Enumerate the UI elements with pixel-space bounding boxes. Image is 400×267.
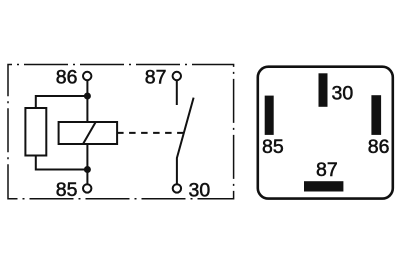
svg-text:87: 87 [316,159,338,181]
pin 85 terminal circle [83,184,91,192]
wire: pin 86 lead down to coil top [86,80,88,122]
switch blade (normally open contact) [177,98,194,185]
terminal pad 86 [371,95,381,135]
terminal pad 30 [319,73,328,107]
wire: bottom branch from resistor [36,156,88,170]
coil diagonal mark [83,122,96,144]
svg-text:86: 86 [368,136,390,158]
svg-text:30: 30 [332,83,354,105]
node junction at 86 branch [84,93,91,100]
terminal pad 87 [304,181,343,191]
wire: coil bottom down to pin 85 [86,144,88,184]
node junction at 85 branch [84,166,91,173]
relay enclosure dash-dot boundary box [8,65,234,199]
svg-text:30: 30 [189,180,211,202]
wire: top branch to resistor [36,96,88,108]
relay base outline (footprint) [258,67,393,199]
svg-text:87: 87 [145,67,167,89]
svg-text:86: 86 [56,67,78,89]
pin 86 terminal circle [83,72,91,80]
svg-text:85: 85 [262,136,284,158]
resistor R (parallel) [25,108,46,156]
relay coil K [59,122,118,144]
wire: pin 87 lead [176,80,178,105]
pin 30 terminal circle [173,184,181,192]
svg-text:85: 85 [56,179,78,201]
actuation dashed link coil to switch [117,132,187,134]
pin 87 terminal circle [173,72,181,80]
terminal pad 85 [265,96,274,135]
